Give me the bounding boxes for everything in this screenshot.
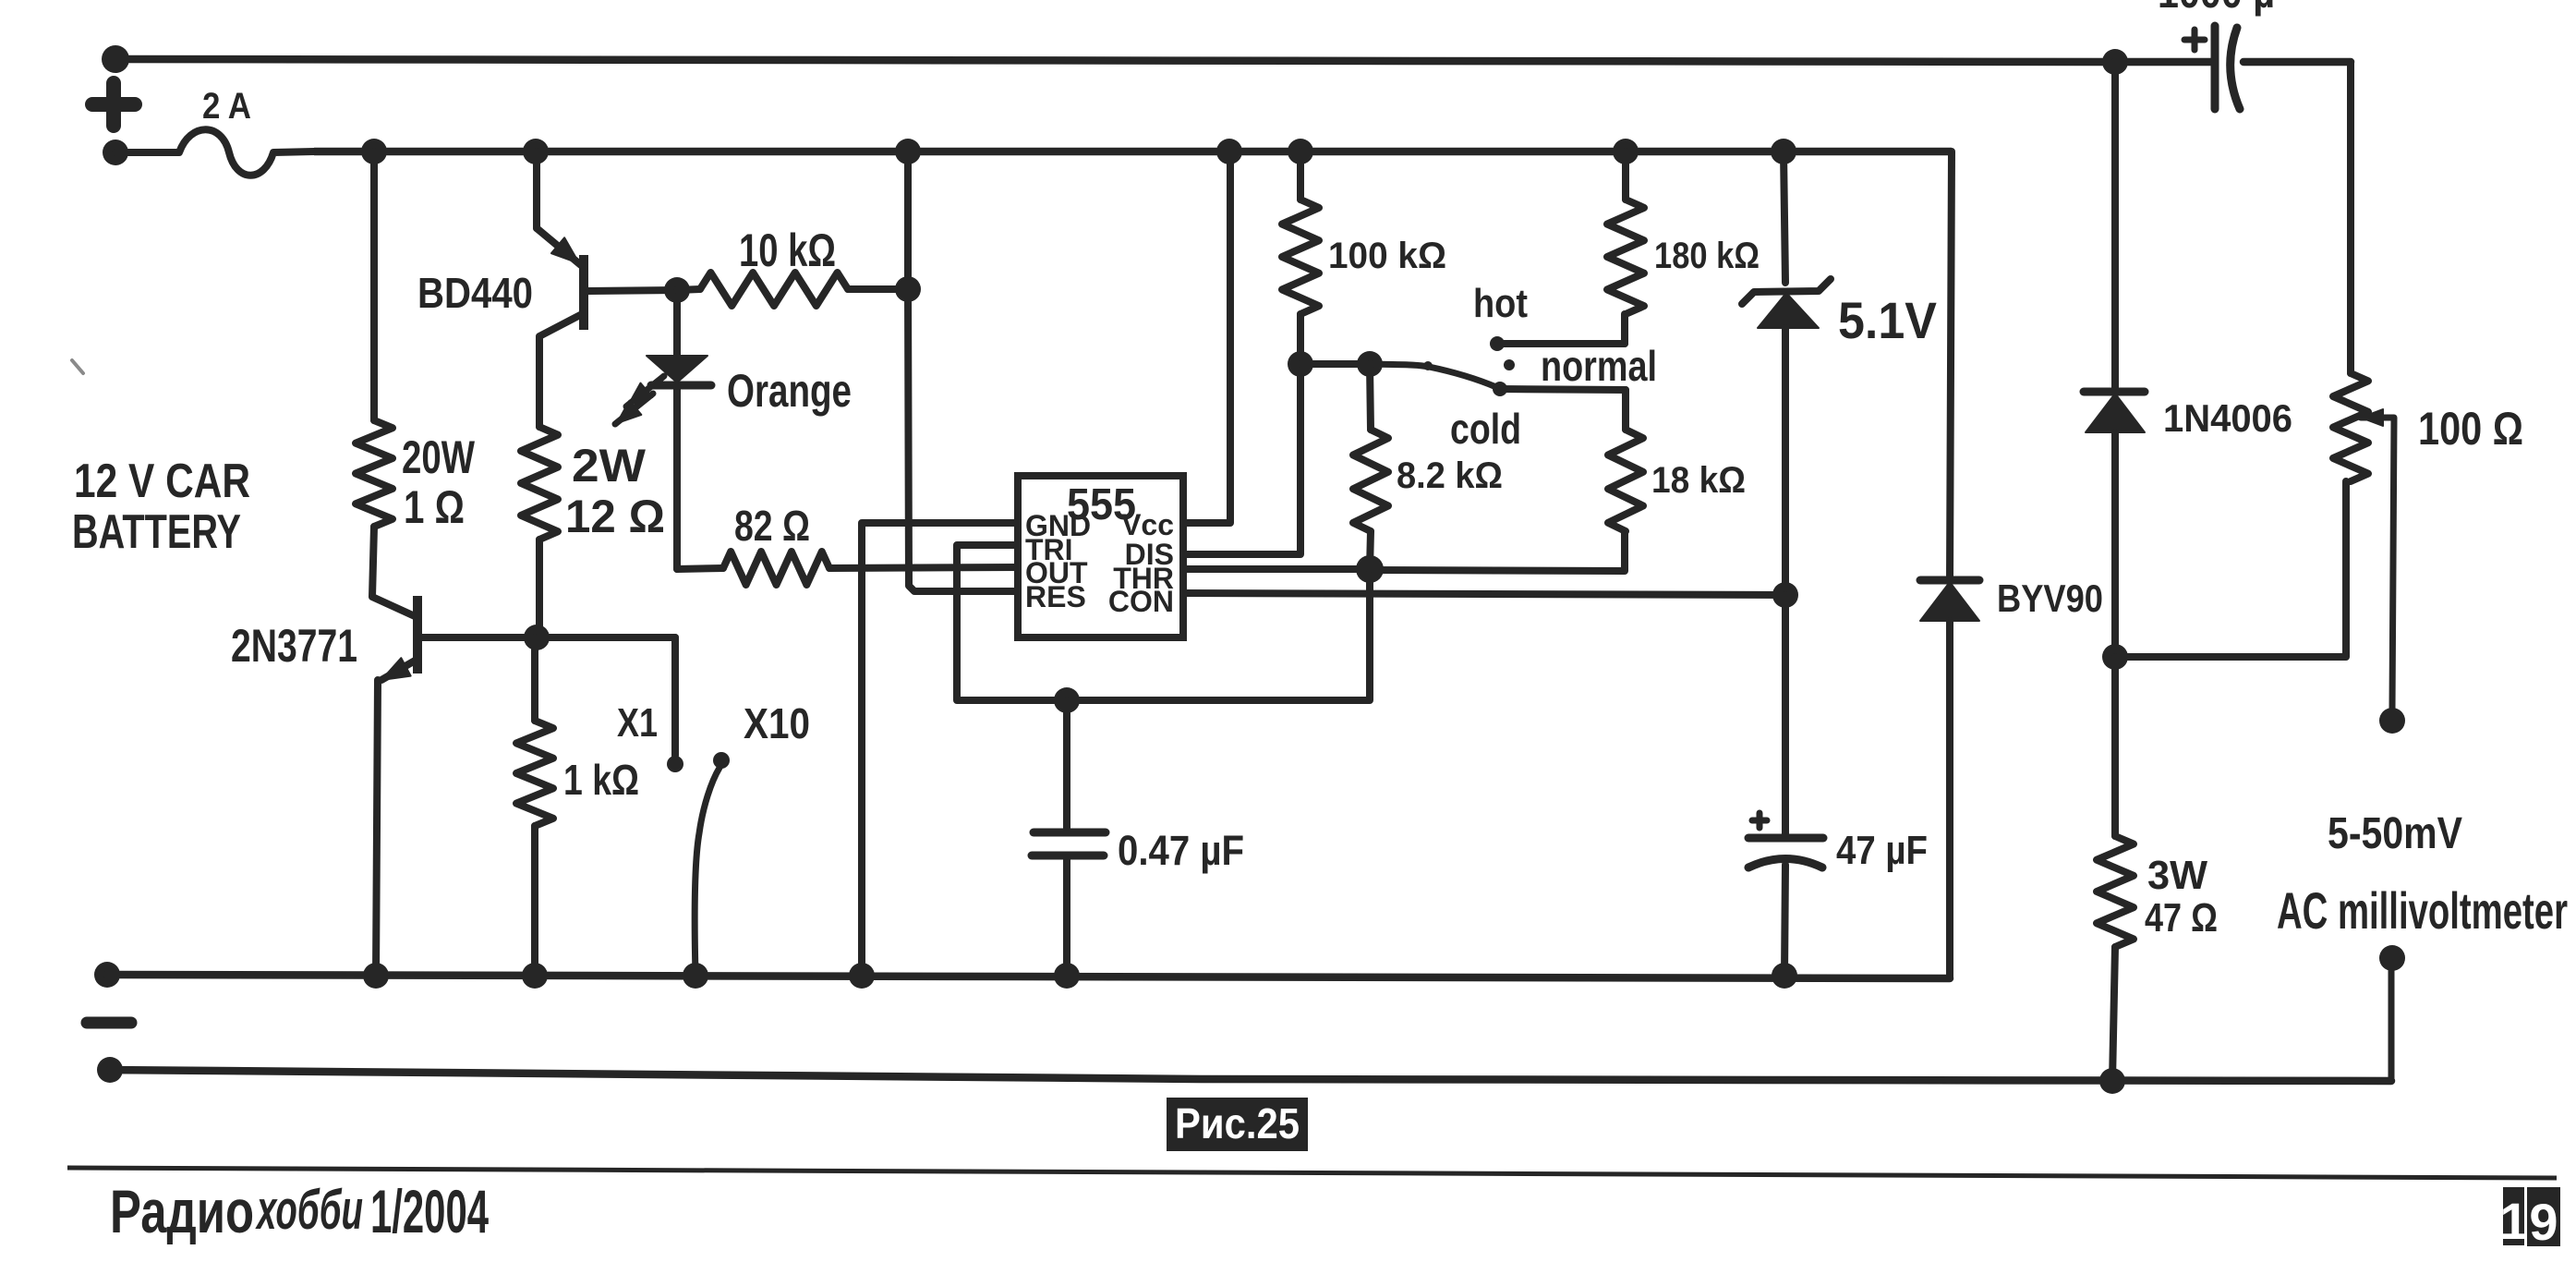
- node: rail to 100k: [1288, 139, 1313, 164]
- wire: ground rail: [107, 975, 1950, 978]
- svg-text:X10: X10: [744, 699, 810, 747]
- label 18 kohm: [1651, 460, 1746, 501]
- footer issue 1/2004: [370, 1177, 489, 1245]
- svg-text:BATTERY: BATTERY: [72, 505, 241, 559]
- capacitor C4 1000uF plus: [2184, 30, 2205, 50]
- switch contact hot line: [1490, 336, 1625, 351]
- zener D3 anode lead: [1782, 328, 1789, 595]
- resistor 3W 47 ohm: [2097, 836, 2134, 947]
- svg-text:Vcc: Vcc: [1121, 508, 1174, 541]
- svg-text:1000 µ: 1000 µ: [2158, 0, 2275, 17]
- svg-text:180 kΩ: 180 kΩ: [1654, 236, 1760, 276]
- svg-text:Orange: Orange: [727, 365, 852, 417]
- pin label THR: [1113, 562, 1174, 595]
- pin label TRI: [1025, 533, 1073, 566]
- label 12 ohm: [565, 491, 665, 542]
- label 47 ohm: [2145, 895, 2218, 940]
- wire: DIS pin to divider node: [1183, 364, 1300, 554]
- resistor 180 kohm: [1607, 200, 1644, 314]
- resistor 2W 12ohm: [521, 427, 558, 540]
- pin label GND: [1025, 509, 1091, 542]
- label 5.1V: [1838, 291, 1937, 349]
- node: switch arm on ground rail: [683, 963, 708, 989]
- label 3W: [2147, 853, 2207, 898]
- node: 47uF on ground rail: [1772, 963, 1797, 989]
- label BYV90: [1997, 576, 2103, 620]
- capacitor C3 bottom lead: [1784, 865, 1785, 976]
- node: rail to BD440 emitter: [523, 139, 549, 164]
- capacitor C3 47uF top lead: [1782, 595, 1789, 834]
- pin label RES: [1025, 580, 1086, 613]
- label 0.47 uF: [1118, 827, 1244, 874]
- label 10 kohm: [739, 224, 836, 276]
- wire: CON pin to zener/47uF node: [1183, 593, 1785, 595]
- wire: 8.2k bottom lead: [1370, 531, 1371, 569]
- resistor 1 kohm: [516, 721, 553, 826]
- label AC millivoltmeter: [2277, 881, 2568, 940]
- wire: Vcc pin to +12V rail: [1183, 152, 1230, 523]
- node: GND on ground rail: [849, 963, 875, 989]
- node: rail to zener: [1771, 139, 1796, 164]
- node: TRI loop to 0.47uF: [1054, 687, 1080, 713]
- svg-text:1/2004: 1/2004: [370, 1177, 489, 1245]
- pin label DIS: [1125, 538, 1174, 571]
- label hot: [1473, 281, 1528, 326]
- node: rail to 180k: [1613, 139, 1639, 164]
- label 5-50mV: [2328, 809, 2462, 858]
- wire: 10k right lead: [848, 285, 908, 293]
- wire: 3W 47 bottom lead: [2112, 947, 2115, 1081]
- label 1 kohm: [563, 756, 639, 804]
- label 555: [1067, 480, 1136, 529]
- svg-text:BYV90: BYV90: [1997, 576, 2103, 620]
- node: top rail to 1N4006: [2102, 49, 2128, 75]
- label 2A: [202, 86, 251, 127]
- resistor 8.2 kohm: [1353, 430, 1388, 531]
- resistor 82 ohm: [723, 552, 829, 585]
- transistor Q1 collector: [539, 314, 582, 427]
- label BATTERY: [72, 505, 241, 559]
- wire: 1k resistor top lead: [531, 637, 538, 721]
- wire: GND pin to ground rail: [862, 523, 1018, 976]
- resistor 20W 1ohm: [356, 420, 393, 527]
- label 8.2 kohm: [1397, 455, 1503, 496]
- node: 0.47uF on ground rail: [1054, 963, 1080, 989]
- svg-text:2 A: 2 A: [202, 86, 251, 127]
- footer magazine Radio: [110, 1177, 254, 1245]
- LED emission arrow 1: [626, 376, 664, 407]
- wire: meter - to return rail: [2389, 958, 2395, 1081]
- svg-text:X1: X1: [617, 700, 658, 746]
- resistor 10 kohm: [700, 273, 848, 306]
- battery minus terminal node (rail1): [94, 962, 120, 988]
- node: rail to 20W resistor: [361, 139, 387, 164]
- node: 10k / +12V vertical / RES: [895, 276, 921, 302]
- pin label Vcc: [1121, 508, 1174, 541]
- svg-text:Радио: Радио: [110, 1177, 254, 1245]
- wire: 1k bottom to ground rail: [531, 826, 538, 976]
- wire: switch common link: [1300, 360, 1370, 368]
- wire: 20W resistor top lead: [370, 152, 378, 420]
- switch arm (on ground rail, to X10): [695, 768, 720, 975]
- wire: cold line to 18k top: [1622, 390, 1629, 430]
- svg-text:9: 9: [2529, 1193, 2558, 1251]
- LED cathode bar: [651, 382, 711, 390]
- resistor 100 kohm: [1282, 200, 1319, 314]
- stray scan mark: [72, 360, 83, 373]
- diode D4 anode lead: [2111, 432, 2119, 657]
- wire: OUT pin line: [829, 567, 1018, 568]
- node: 12ohm/1k to base of 2N3771: [524, 625, 550, 650]
- svg-text:12 Ω: 12 Ω: [565, 491, 665, 542]
- svg-text:CON: CON: [1108, 585, 1174, 618]
- capacitor C1 bottom lead: [1063, 855, 1070, 976]
- battery plus sign: [92, 83, 135, 126]
- node: BD440 base / 10k / LED: [664, 277, 690, 303]
- svg-text:100 kΩ: 100 kΩ: [1328, 236, 1446, 276]
- wire: 180k top lead: [1622, 152, 1629, 200]
- svg-text:cold: cold: [1450, 405, 1521, 453]
- wire: hot line up to 180k: [1621, 314, 1628, 344]
- node: switch common / 8.2k top: [1357, 351, 1383, 377]
- battery plus terminal node (fused rail): [103, 140, 128, 165]
- svg-text:0.47 µF: 0.47 µF: [1118, 827, 1244, 874]
- label 180 kohm: [1654, 236, 1760, 276]
- wire: +12V rail corner down to BYV90: [1950, 152, 1952, 580]
- wire: 3W 47 top lead: [2111, 657, 2119, 836]
- wire: LED cathode down to 82ohm line: [673, 387, 681, 569]
- wire: cap to right vertical: [2243, 58, 2351, 67]
- svg-text:47 µF: 47 µF: [1836, 828, 1928, 873]
- svg-text:1: 1: [2499, 1192, 2528, 1250]
- switch contact normal: [1504, 359, 1515, 370]
- label 1N4006: [2163, 396, 2292, 440]
- svg-text:Рис.25: Рис.25: [1175, 1099, 1300, 1147]
- label normal: [1541, 342, 1657, 390]
- wire: 100k top lead: [1297, 152, 1304, 200]
- svg-text:20W: 20W: [402, 431, 476, 483]
- capacitor C3 47uF plates: [1748, 838, 1823, 868]
- meter terminal - node: [2379, 945, 2405, 971]
- svg-text:18 kΩ: 18 kΩ: [1651, 460, 1746, 501]
- switch contact X10: [713, 752, 730, 769]
- wire: BD440 base to LED node: [588, 290, 677, 291]
- svg-text:8.2 kΩ: 8.2 kΩ: [1397, 455, 1503, 496]
- diode D2 BYV90 triangle: [1920, 582, 1979, 621]
- node: CON / zener / 47uF: [1772, 582, 1798, 608]
- wire: pot bottom link: [2115, 481, 2346, 657]
- node: Vcc on +12V rail: [1216, 139, 1242, 164]
- svg-text:5-50mV: 5-50mV: [2328, 809, 2462, 858]
- svg-text:5.1V: 5.1V: [1838, 291, 1937, 349]
- meter terminal + node: [2379, 708, 2405, 734]
- wire: base line to X1 contact: [671, 637, 679, 756]
- potentiometer 100 ohm element: [2333, 373, 2368, 481]
- wire: 100k bottom lead: [1297, 314, 1304, 364]
- diode D4 1N4006 bar: [2084, 388, 2145, 396]
- potentiometer wiper: [2361, 409, 2394, 710]
- label 100 kohm: [1328, 236, 1446, 276]
- svg-text:2N3771: 2N3771: [231, 620, 357, 672]
- wire: fused +12V rail: [314, 148, 1952, 156]
- label 2N3771: [231, 620, 357, 672]
- wire: THR node to 18k bottom: [1370, 531, 1625, 571]
- label Orange: [727, 365, 852, 417]
- node: emitter on ground rail: [363, 963, 389, 989]
- wire: BD440 emitter lead: [533, 152, 540, 228]
- diode D2 anode lead to ground rail end: [1946, 621, 1953, 978]
- zener D3 5.1V triangle: [1758, 293, 1819, 328]
- node: 3W 47 on meter rail: [2099, 1068, 2125, 1094]
- svg-text:хобби: хобби: [255, 1179, 363, 1241]
- capacitor C1 0.47uF top lead: [1063, 700, 1070, 832]
- separator line: [67, 1168, 2557, 1178]
- svg-text:100 Ω: 100 Ω: [2418, 403, 2523, 455]
- resistor 18 kohm: [1608, 430, 1643, 531]
- wire: THR pin to THR node: [1183, 565, 1370, 573]
- svg-text:1 Ω: 1 Ω: [404, 481, 465, 533]
- label 82 ohm: [734, 502, 810, 550]
- svg-text:10 kΩ: 10 kΩ: [739, 224, 836, 276]
- svg-text:2W: 2W: [572, 440, 647, 491]
- svg-text:1N4006: 1N4006: [2163, 396, 2292, 440]
- svg-text:BD440: BD440: [417, 269, 533, 317]
- battery minus sign: [87, 1017, 131, 1029]
- svg-text:82 Ω: 82 Ω: [734, 502, 810, 550]
- label 2W: [572, 440, 647, 491]
- svg-text:normal: normal: [1541, 342, 1657, 390]
- wire: meter return rail: [110, 1070, 2391, 1081]
- fuse 2A: [115, 129, 314, 176]
- node: 100k/DIS/switch-common: [1288, 351, 1313, 377]
- footer magazine hobby: [255, 1179, 363, 1241]
- transistor Q1 BD440 body bar: [579, 255, 588, 330]
- switch contact cold line: [1493, 382, 1626, 396]
- page number 19 box: [2499, 1187, 2560, 1251]
- label 1000u (cut off): [2158, 0, 2275, 17]
- wire: 2N3771 base line: [422, 634, 675, 641]
- svg-text:AC millivoltmeter: AC millivoltmeter: [2277, 881, 2568, 940]
- LED D1 Orange triangle: [647, 356, 707, 382]
- svg-text:3W: 3W: [2147, 853, 2207, 898]
- label 47 uF: [1836, 828, 1928, 873]
- wire: 82ohm left lead: [677, 568, 723, 569]
- LED emission arrow 2: [615, 394, 653, 424]
- label 20W: [402, 431, 476, 483]
- capacitor C3 47uF plus: [1752, 813, 1767, 828]
- IC U1 555 box: [1018, 476, 1183, 637]
- label cold: [1450, 405, 1521, 453]
- transistor Q1 BD440 emitter: [537, 228, 581, 265]
- wire: 8.2k top lead: [1370, 364, 1371, 430]
- svg-text:1 kΩ: 1 kΩ: [563, 756, 639, 804]
- wire: 20W bottom to 2N3771 collector: [372, 527, 415, 616]
- pin label CON: [1108, 585, 1174, 618]
- label 1 ohm: [404, 481, 465, 533]
- svg-text:RES: RES: [1025, 580, 1086, 613]
- wire: 10k left lead: [677, 289, 700, 290]
- capacitor C1 0.47uF plates: [1032, 832, 1106, 855]
- wire: top rail junction to 1000uF: [2115, 58, 2215, 67]
- zener D3 5.1V bar: [1742, 279, 1831, 304]
- svg-text:hot: hot: [1473, 281, 1528, 326]
- node: 1N4006 / pot bottom / 3W 47: [2102, 644, 2128, 670]
- wire: TRI pin loop to THR node: [957, 545, 1370, 700]
- wire: top rail (+ to 1N4006/capacitor node): [115, 59, 2115, 62]
- battery minus terminal node (rail2): [97, 1057, 123, 1083]
- label X1: [617, 700, 658, 746]
- capacitor C4 1000uF plates: [2215, 26, 2240, 109]
- label X10: [744, 699, 810, 747]
- pin label OUT: [1025, 556, 1088, 589]
- node: THR junction: [1356, 555, 1384, 583]
- node: rail to RES vertical: [895, 139, 921, 164]
- LED anode lead: [673, 290, 681, 356]
- caption box Ris.25: [1167, 1098, 1308, 1151]
- zener D3 cathode lead: [1784, 152, 1785, 283]
- battery plus terminal node (top rail): [102, 45, 129, 73]
- svg-text:12 V CAR: 12 V CAR: [74, 455, 250, 508]
- label 100 ohm: [2418, 403, 2523, 455]
- transistor Q2 emitter: [381, 658, 417, 680]
- diode D4 1N4006 triangle: [2086, 394, 2145, 432]
- wire: right vertical to pot top: [2347, 62, 2354, 373]
- wire: 2N3771 emitter to ground rail: [376, 680, 378, 976]
- svg-text:47 Ω: 47 Ω: [2145, 895, 2218, 940]
- diode D4 1N4006 cathode lead: [2111, 62, 2119, 392]
- node: 1k on ground rail: [522, 963, 548, 989]
- transistor Q2 2N3771 body bar: [413, 596, 422, 673]
- diode D2 BYV90 bar: [1920, 576, 1979, 585]
- wire: +12V rail down to RES line: [908, 152, 1018, 591]
- wire: 12ohm bottom to base node: [536, 540, 543, 637]
- switch contact X1: [667, 756, 683, 772]
- label 12 V CAR: [74, 455, 250, 508]
- label BD440: [417, 269, 533, 317]
- switch arm to cold: [1370, 361, 1496, 387]
